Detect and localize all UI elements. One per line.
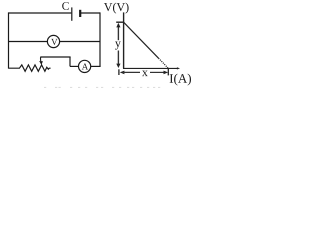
- tick on y axis: [116, 21, 123, 23]
- V-I line dotted part: [159, 58, 169, 68]
- resistor (rheostat) zigzag: [9, 65, 51, 71]
- label V(V): [104, 3, 129, 14]
- V-I line solid part: [124, 22, 159, 58]
- y dimension up arrowhead: [116, 23, 120, 28]
- wire top right segment: [81, 12, 100, 14]
- faint cropped text row at bottom: [44, 86, 160, 88]
- wire middle left segment: [9, 41, 48, 43]
- cell C long plate: [71, 7, 73, 20]
- x axis: [123, 67, 178, 69]
- x dimension right shaft: [150, 71, 164, 73]
- x dimension left arrowhead: [120, 71, 125, 75]
- wire top left segment: [9, 12, 72, 14]
- right tick below axis: [167, 69, 169, 76]
- wire wiper horizontal: [40, 56, 70, 58]
- y dimension lower shaft: [117, 51, 119, 65]
- left tick below axis: [118, 69, 120, 75]
- label C: [62, 2, 69, 10]
- wire middle right segment: [60, 41, 100, 43]
- y axis: [123, 12, 125, 68]
- voltmeter V: [47, 35, 59, 47]
- label x: [142, 71, 148, 77]
- y dimension upper shaft: [117, 24, 119, 40]
- rheostat wiper arrow: [40, 57, 41, 61]
- label I(A): [170, 74, 191, 86]
- wire ammeter left: [70, 65, 79, 67]
- label y: [115, 41, 121, 49]
- ammeter A: [79, 60, 91, 72]
- wire right vertical: [99, 12, 101, 66]
- wire right to ammeter: [91, 65, 101, 67]
- wire left vertical: [8, 12, 10, 68]
- x axis arrowhead: [177, 67, 180, 69]
- x dimension right arrowhead: [164, 71, 169, 75]
- y dimension down arrowhead: [116, 64, 120, 68]
- wire wiper vertical: [69, 57, 71, 66]
- x dimension left shaft: [123, 71, 140, 73]
- cell C short plate: [79, 10, 81, 17]
